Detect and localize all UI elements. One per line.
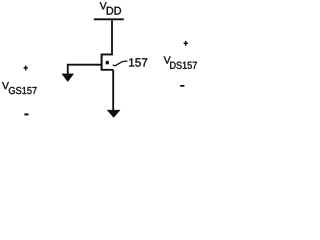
ground arrow at source: [107, 110, 120, 117]
label VGS157 V: [2, 82, 9, 89]
label VGS157 GS157 subscript: [9, 87, 37, 94]
transistor Q157 channel bar: [101, 54, 103, 71]
leader squiggle to 157 label: [113, 61, 128, 66]
label VDS157 DS157 subscript: [170, 62, 197, 69]
plus sign of VDS157: [184, 41, 188, 46]
wire source down from transistor: [112, 70, 114, 111]
transistor Q157 body dot: [106, 61, 110, 65]
node VDD label DD subscript: [107, 7, 121, 15]
label 157 callout: [129, 58, 147, 66]
transistor Q157 drain lead: [102, 53, 113, 55]
label VDS157 V: [164, 56, 171, 63]
plus sign of VGS157: [24, 66, 28, 71]
power rail VDD bar: [94, 18, 124, 20]
wire drain from VDD bar to transistor: [102, 20, 112, 54]
ground arrow at gate: [62, 74, 74, 82]
wire gate to transistor: [68, 65, 102, 75]
minus sign of VDS157: [180, 85, 184, 87]
transistor Q157 source lead: [102, 69, 114, 71]
minus sign of VGS157: [24, 113, 28, 115]
node VDD label V: [100, 2, 107, 9]
